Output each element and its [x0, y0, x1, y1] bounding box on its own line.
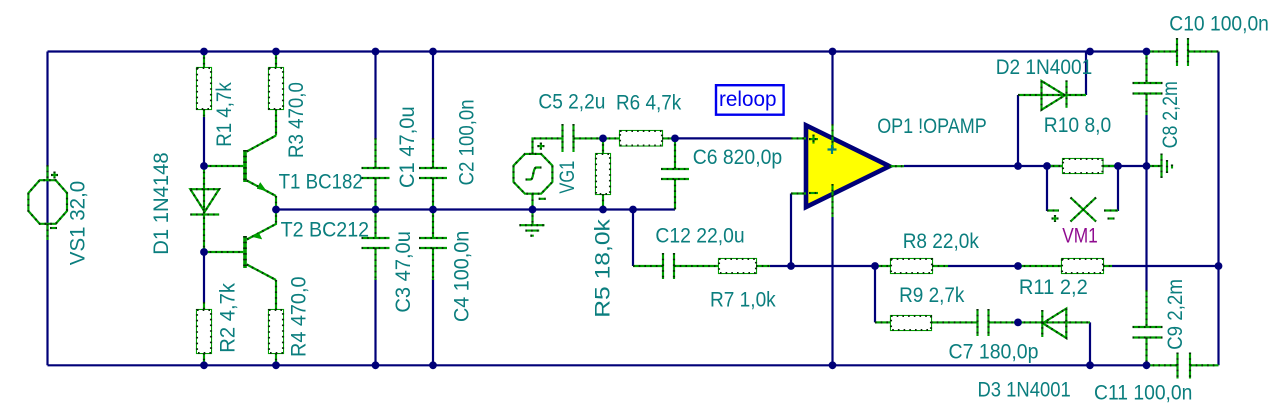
svg-text:R2 4,7k: R2 4,7k [217, 283, 240, 353]
svg-text:R7 1,0k: R7 1,0k [710, 289, 776, 312]
svg-text:T1 BC182: T1 BC182 [279, 171, 363, 194]
svg-text:R8 22,0k: R8 22,0k [903, 230, 980, 253]
svg-text:R3 470,0: R3 470,0 [285, 82, 308, 158]
svg-text:C2 100,0n: C2 100,0n [455, 99, 478, 185]
svg-text:C7 180,0p: C7 180,0p [949, 340, 1039, 363]
svg-text:R4 470,0: R4 470,0 [288, 277, 311, 358]
svg-text:D2 1N4001: D2 1N4001 [996, 56, 1093, 79]
svg-text:reloop: reloop [719, 88, 777, 111]
svg-text:VG1: VG1 [556, 161, 579, 194]
svg-text:R9 2,7k: R9 2,7k [899, 284, 965, 307]
svg-text:C12 22,0u: C12 22,0u [655, 224, 744, 247]
svg-text:R6 4,7k: R6 4,7k [616, 92, 682, 115]
svg-text:OP1 !OPAMP: OP1 !OPAMP [877, 115, 987, 138]
svg-text:R11 2,2: R11 2,2 [1019, 276, 1088, 299]
svg-text:C1 47,0u: C1 47,0u [396, 106, 419, 188]
svg-text:C3 47,0u: C3 47,0u [392, 231, 415, 313]
svg-text:C10 100,0n: C10 100,0n [1169, 12, 1269, 35]
svg-text:C8 2,2m: C8 2,2m [1159, 81, 1182, 148]
svg-text:VM1: VM1 [1062, 225, 1098, 248]
svg-text:R10 8,0: R10 8,0 [1044, 114, 1111, 137]
svg-text:D3 1N4001: D3 1N4001 [978, 378, 1071, 401]
svg-text:C6 820,0p: C6 820,0p [693, 146, 783, 169]
svg-text:C11 100,0n: C11 100,0n [1094, 381, 1192, 404]
svg-text:C4 100,0n: C4 100,0n [451, 231, 474, 322]
svg-text:C5 2,2u: C5 2,2u [538, 91, 605, 114]
svg-text:T2 BC212: T2 BC212 [281, 219, 370, 242]
svg-text:R1 4,7k: R1 4,7k [213, 82, 236, 147]
svg-text:VS1 32,0: VS1 32,0 [67, 181, 90, 265]
svg-text:D1 1N4148: D1 1N4148 [150, 152, 173, 254]
svg-text:C9 2,2m: C9 2,2m [1164, 279, 1187, 350]
svg-text:R5 18,0k: R5 18,0k [592, 219, 615, 318]
